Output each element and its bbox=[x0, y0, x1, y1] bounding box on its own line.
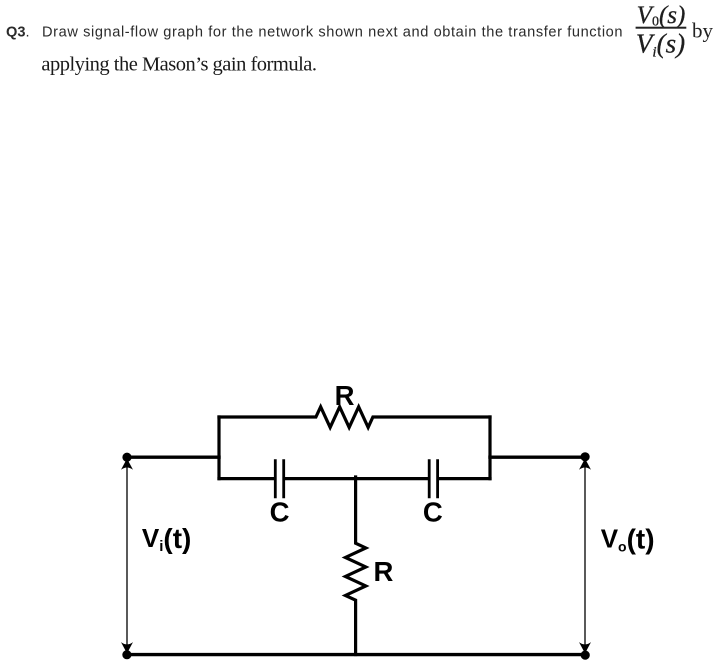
svg-text:Vi(s): Vi(s) bbox=[636, 29, 685, 61]
svg-text:C: C bbox=[423, 496, 443, 527]
svg-text:applying the Mason’s gain form: applying the Mason’s gain formula. bbox=[41, 53, 317, 75]
svg-text:Vi(t): Vi(t) bbox=[142, 523, 192, 555]
svg-text:V0(s): V0(s) bbox=[637, 2, 686, 30]
svg-text:Q3.: Q3. bbox=[6, 24, 30, 40]
svg-text:by: by bbox=[692, 19, 714, 43]
svg-text:Vo(t): Vo(t) bbox=[601, 524, 655, 555]
svg-text:C: C bbox=[270, 496, 290, 527]
svg-text:R: R bbox=[374, 556, 394, 587]
svg-text:Draw signal-flow graph for the: Draw signal-flow graph for the network s… bbox=[42, 24, 623, 40]
svg-text:R: R bbox=[335, 380, 355, 411]
